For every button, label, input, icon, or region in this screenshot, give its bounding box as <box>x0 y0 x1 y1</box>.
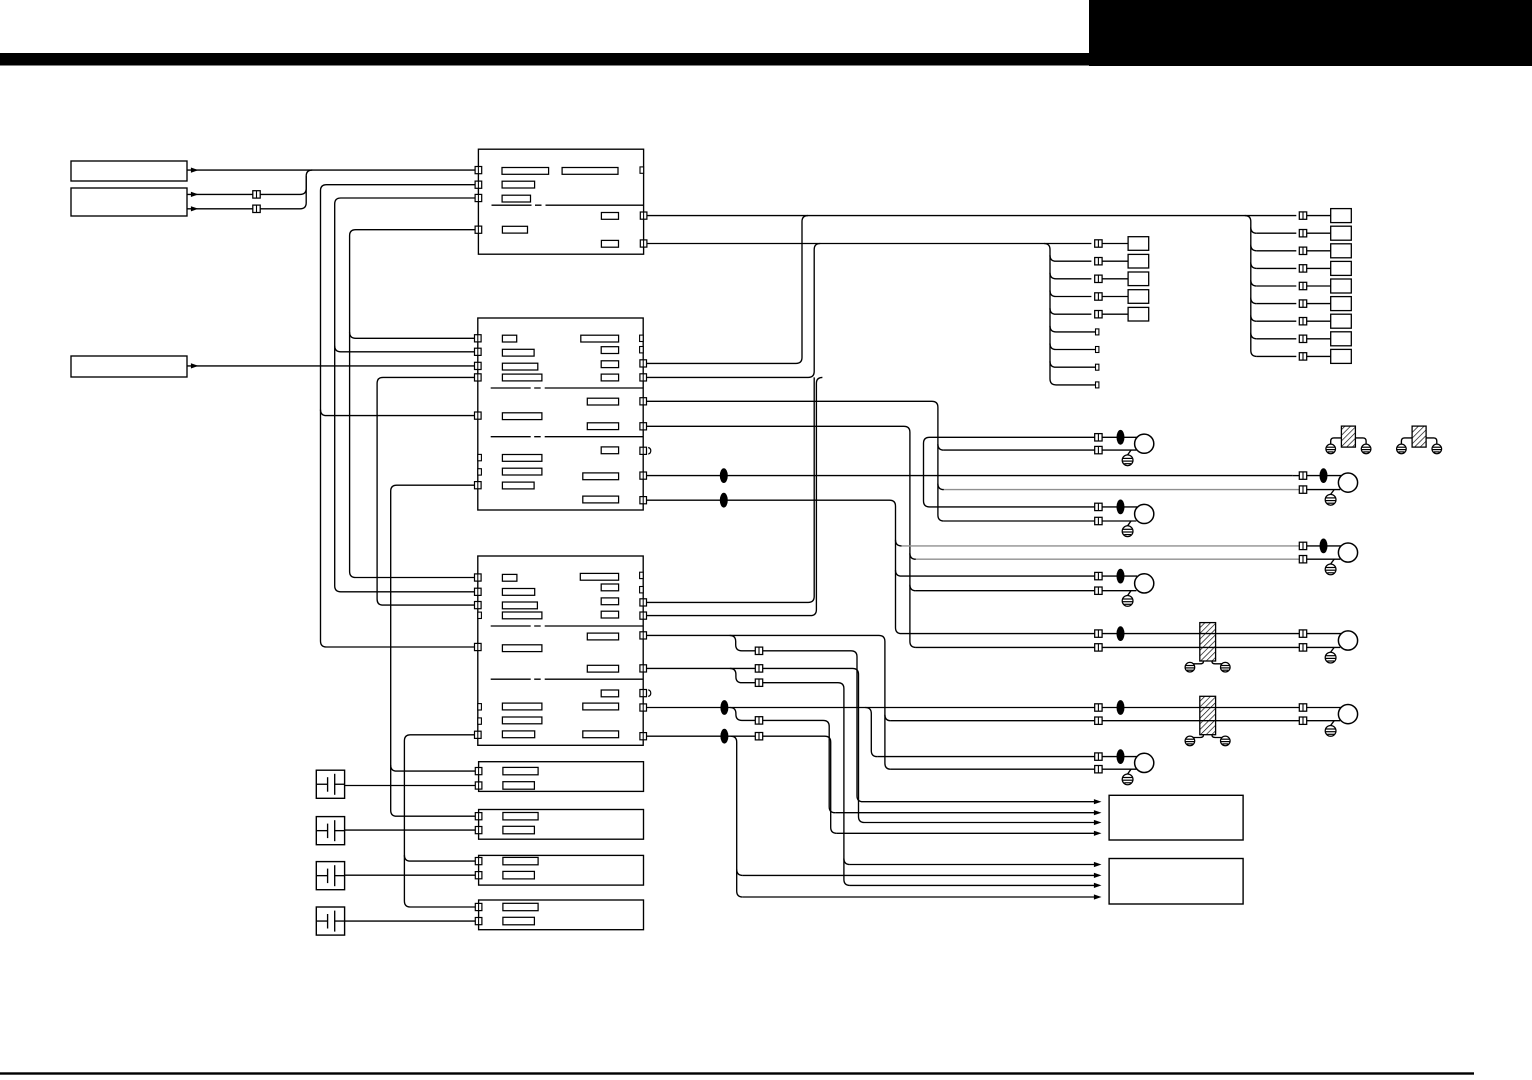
junction block C slot 13 <box>587 633 618 640</box>
spot lamp unit 2 ground left <box>1397 444 1407 454</box>
room lamp 2 low wire <box>944 520 1095 522</box>
wire left group row 3 <box>1056 278 1091 280</box>
junction block B slot 13 <box>587 398 618 405</box>
room lamp 3 low wire b <box>1102 590 1136 592</box>
VK branch to ECU box2 row 875.4 <box>737 869 743 875</box>
courtesy lamp 2 bulb <box>1338 543 1357 562</box>
unit box right group row 3 <box>1331 244 1352 258</box>
wire: block B pin R4 riser to feed row <box>647 244 821 378</box>
branch V4 to block B pin L1 <box>350 332 475 338</box>
junction block B pin L4 <box>475 374 482 381</box>
courtesy lamp 1 high connector <box>1299 472 1306 479</box>
junction block C pin R9 <box>640 733 647 740</box>
unit box left group row 1 <box>1128 237 1149 251</box>
luggage lamp high wire b <box>1102 756 1137 758</box>
tailgate lamp high wire b <box>1307 707 1341 709</box>
arrowhead on label box2 lower wire <box>191 206 199 211</box>
connector right group row 4 <box>1299 265 1306 272</box>
junction block C slot 10 <box>601 584 618 591</box>
inline connector row 650.8 <box>755 647 762 654</box>
junction block B slot 16 <box>583 473 619 480</box>
room lamp 1 ground <box>1122 455 1133 466</box>
bus branch right group row 7 <box>1251 315 1257 321</box>
switch unit box 1 outline <box>479 762 644 792</box>
courtesy lamp 3 low run <box>916 646 1095 648</box>
signal wire to control unit 2 row 4 <box>743 896 1099 898</box>
label box: interior light source 3 <box>71 356 187 377</box>
illumination resistor 2 <box>1200 696 1216 734</box>
arrowhead control unit 2 row 4 <box>1094 894 1102 899</box>
switch unit box 2 slot b <box>503 826 535 834</box>
wire right group row 2 to unit <box>1307 232 1331 234</box>
courtesy lamp 2 high connector <box>1299 542 1306 549</box>
junction block B pin L2 <box>475 348 482 355</box>
room lamp 3 ground <box>1122 596 1133 607</box>
tailgate lamp high connector <box>1299 704 1306 711</box>
room lamp 3 bulb <box>1135 574 1154 593</box>
room lamp 1 low wire b <box>1102 449 1136 451</box>
signal wire to control unit 1 row 4 <box>837 832 1099 834</box>
wire: block C pin R6 trunk <box>647 668 865 822</box>
courtesy lamp 1 low connector <box>1299 486 1306 493</box>
branch V8 to switch box 3 pin 1 <box>404 855 475 861</box>
tailgate lamp low wire b <box>1307 720 1340 722</box>
wire left group row 1 to unit <box>1102 243 1128 245</box>
wire left group row 9 <box>1056 384 1096 386</box>
VG branch to tailgate lamp low <box>885 715 891 721</box>
wire: block B pin R6 to drop VE <box>647 426 916 647</box>
illumination resistor 2 ground lead left <box>1190 735 1204 740</box>
header title block (solid) <box>1089 0 1532 66</box>
courtesy lamp 2 ground lead <box>1331 559 1335 564</box>
label box: interior light source 1 <box>71 161 187 181</box>
room lamp 3 high connector <box>1095 572 1102 579</box>
bottom rule <box>0 1072 1474 1074</box>
courtesy lamp 1 ground lead <box>1331 490 1335 495</box>
spot lamp unit 2 <box>1412 426 1426 447</box>
junction block C slot 15 <box>601 690 618 697</box>
wire: label box3 to block B pin L3 <box>187 365 475 367</box>
courtesy lamp 1 splice <box>1320 468 1328 483</box>
junction block B pin R4 <box>640 374 647 381</box>
junction block C pin R6 <box>640 665 647 672</box>
connector right group row 6 <box>1299 300 1306 307</box>
courtesy lamp 3 high connector mid <box>1095 630 1102 637</box>
junction block B pin L1 <box>475 335 482 342</box>
VE branch to room lamp 3 low <box>910 585 916 591</box>
junction block C slot 17 <box>583 731 619 738</box>
VJ branch to luggage lamp high <box>865 708 877 757</box>
switch unit box 1 pin 1 <box>475 768 482 775</box>
junction block A fuse slot 7 <box>601 240 618 247</box>
junction block B slot 15 <box>601 447 618 454</box>
tailgate lamp low wire <box>1222 720 1300 722</box>
bus branch left group row 7 <box>1050 344 1056 350</box>
wire left group row 4 to unit <box>1102 296 1128 298</box>
junction block B outline <box>478 318 643 510</box>
courtesy lamp 3 low wire b <box>1307 646 1340 648</box>
connector left group row 4 <box>1095 293 1102 300</box>
connector left group row 1 <box>1095 240 1102 247</box>
spot lamp unit 2 ground right <box>1432 444 1442 454</box>
courtesy lamp 1 bulb <box>1338 473 1357 492</box>
wire right group row 5 to unit <box>1307 285 1331 287</box>
illumination resistor 2 ground right <box>1221 736 1231 746</box>
spot lamp unit 2 ground lead left <box>1401 438 1412 444</box>
junction block C half pin L4 <box>478 612 482 618</box>
courtesy lamp 1 low wire b <box>1307 489 1340 491</box>
junction block B slot 5 <box>502 413 542 420</box>
connector left group row 5 <box>1095 311 1102 318</box>
connector right group row 8 <box>1299 335 1306 342</box>
illumination resistor 1 <box>1200 623 1216 661</box>
wire left group row 4 <box>1056 296 1091 298</box>
branch V3 to block B pin L2 <box>335 346 475 352</box>
splice on pin R9 wire <box>720 493 728 508</box>
junction block C pin L1 <box>475 574 482 581</box>
junction block C slot 3 <box>502 602 537 609</box>
junction block A pin L4 <box>475 226 482 233</box>
bus branch left group row 5 <box>1050 308 1056 314</box>
signal wire to control unit 2 row 3 <box>850 884 1099 886</box>
tailgate lamp high run b <box>1102 707 1221 709</box>
wire right group row 5 <box>1257 285 1297 287</box>
wire: label box1 to block A pin L1 <box>187 169 475 171</box>
wire right group row 8 <box>1257 338 1297 340</box>
header rule bar <box>0 53 1532 66</box>
riser: feed row to block C pin R3 <box>647 377 815 602</box>
junction block A fuse slot 4 <box>502 195 530 202</box>
courtesy lamp 1 ground <box>1325 494 1336 505</box>
luggage lamp ground <box>1122 774 1133 785</box>
wire: block A pin R2 feed to left connector bus <box>647 243 1092 245</box>
label box: interior light source 2 <box>71 188 187 216</box>
switch unit box 4 slot b <box>503 917 535 925</box>
wire: block B pin R3 riser to feed row <box>647 216 809 364</box>
junction block C outline <box>478 556 643 745</box>
wire right group row 3 to unit <box>1307 250 1331 252</box>
wire left group row 6 <box>1056 331 1096 333</box>
luggage lamp low connector <box>1095 766 1102 773</box>
wire left group row 8 <box>1056 366 1096 368</box>
door switch 3 box <box>316 862 344 890</box>
courtesy lamp 3 low run b <box>1102 646 1221 648</box>
branch jog to connector row 720.4 <box>730 708 835 813</box>
switch unit box 4 outline <box>479 900 644 930</box>
junction block C slot 2 <box>502 589 534 596</box>
junction block C pin L5 <box>475 643 482 650</box>
junction block B half pin L7 <box>478 454 482 460</box>
room lamp 2 high connector <box>1095 503 1102 510</box>
unit box right group row 1 <box>1331 209 1352 223</box>
junction block C pin R3 <box>640 599 647 606</box>
switch unit box 3 slot b <box>503 871 535 879</box>
courtesy lamp 3 ground lead <box>1331 647 1335 652</box>
switch unit box 3 outline <box>479 855 644 885</box>
junction block A half pin R0 <box>640 167 644 173</box>
switch unit box 2 pin 1 <box>475 813 482 820</box>
luggage lamp low wire <box>891 768 1095 770</box>
splice on pin R8 wire <box>720 700 728 715</box>
branch V6 to switch box 1 pin 1 <box>391 765 476 771</box>
room lamp 1 splice <box>1117 430 1125 445</box>
courtesy lamp 2 high wire <box>902 545 1300 547</box>
spot lamp unit 1 ground right <box>1361 444 1371 454</box>
wire: block B pin R8 to courtesy lamp 1 high <box>647 475 1293 477</box>
bus branch right group row 2 <box>1251 227 1257 233</box>
wire right group row 6 <box>1257 303 1297 305</box>
junction block B divider 2 <box>491 436 644 438</box>
tailgate lamp ground lead <box>1331 721 1335 726</box>
bus drop for right connector group <box>1245 216 1257 357</box>
inline connector row 668.4 <box>755 665 762 672</box>
illumination resistor 1 ground right <box>1221 662 1231 672</box>
junction block C half pin L8 <box>478 718 482 724</box>
signal wire to control unit 1 row 1 <box>863 801 1099 803</box>
tailgate lamp high connector mid <box>1095 704 1102 711</box>
wire: block A pin R1 feed to right connector bus <box>647 215 1296 217</box>
junction block C pin R5 <box>640 632 647 639</box>
signal wire to control unit 2 row 1 <box>850 864 1099 866</box>
wire right group row 8 to unit <box>1307 338 1331 340</box>
courtesy lamp 2 low connector <box>1299 556 1306 563</box>
courtesy lamp 1 high wire <box>1293 475 1299 477</box>
courtesy lamp 3 high connector <box>1299 630 1306 637</box>
junction block B pin L6 <box>475 482 482 489</box>
wire left group row 2 to unit <box>1102 260 1128 262</box>
wire: label box2 upper with jog to pin L1 run <box>187 170 312 194</box>
junction block A pin R2 <box>640 240 647 247</box>
junction block C slot 7 <box>502 717 542 724</box>
junction block B half pin R1 <box>640 335 644 341</box>
switch unit box 4 slot a <box>503 903 538 910</box>
signal wire to control unit 2 row 2 <box>743 874 1099 876</box>
luggage lamp bulb <box>1135 753 1154 772</box>
riser V8: block C pin L6 to switch boxes 3-4 <box>404 735 475 907</box>
junction block B pin R6 <box>640 423 647 430</box>
junction block B slot 9 <box>581 335 619 342</box>
VE branch to courtesy lamp 2 low <box>910 553 916 559</box>
room lamp 2 high wire b <box>1102 506 1137 508</box>
arrowhead control unit 1 row 4 <box>1094 831 1102 836</box>
junction block A fuse slot 3 <box>502 181 534 188</box>
trunk branch jog to connector row 682.7 <box>730 668 850 885</box>
courtesy lamp 2 low wire b <box>1307 558 1340 560</box>
control unit box 1 <box>1109 795 1243 840</box>
wire right group row 9 <box>1257 355 1297 357</box>
VD branch to room lamp 1 low <box>938 444 944 450</box>
bus branch right group row 8 <box>1251 333 1257 339</box>
illumination resistor 1 ground left <box>1185 662 1195 672</box>
junction block B half pin L8 <box>478 469 482 475</box>
room lamp 3 ground lead <box>1128 591 1131 596</box>
wire: label box2 lower joining riser <box>187 176 306 209</box>
junction block A fuse slot 5 <box>601 213 618 220</box>
junction block A fuse slot 1 <box>502 168 549 175</box>
luggage lamp ground lead <box>1128 769 1131 774</box>
tailgate lamp low connector <box>1299 717 1306 724</box>
junction block B stub pin R7 <box>640 447 647 454</box>
spot lamp unit 1 ground lead right <box>1355 438 1366 444</box>
wire: block B pin R9 to drop VF <box>647 500 902 633</box>
wire left group row 3 to unit <box>1102 278 1128 280</box>
arrowhead control unit 1 row 3 <box>1094 820 1102 825</box>
junction block A fuse slot 6 <box>502 226 527 233</box>
room lamp 1 low connector <box>1095 446 1102 453</box>
switch unit box 3 pin 2 <box>475 872 482 879</box>
courtesy lamp 1 low wire <box>944 489 1299 491</box>
riser VC room lamp feeds <box>924 437 930 507</box>
arrowhead on label box3 wire <box>191 363 199 368</box>
junction block B slot 3 <box>502 363 537 370</box>
wire: block C pin R9 trunk <box>647 736 837 833</box>
connector right group row 3 <box>1299 247 1306 254</box>
door switch 1 contact <box>316 783 327 785</box>
room lamp 1 high wire <box>930 436 1095 438</box>
wire right group row 7 to unit <box>1307 320 1331 322</box>
unit box right group row 8 <box>1331 332 1352 346</box>
junction block C slot 1 <box>502 574 517 581</box>
wire right group row 3 <box>1257 250 1297 252</box>
junction block B slot 12 <box>601 374 618 381</box>
courtesy lamp 2 splice <box>1320 539 1328 554</box>
wire left group row 5 to unit <box>1102 313 1128 315</box>
junction block A divider <box>492 204 644 206</box>
junction block B slot 14 <box>587 423 618 430</box>
connector left group row 2 <box>1095 258 1102 265</box>
junction block C half pin R2 <box>640 587 644 593</box>
junction block B slot 1 <box>502 335 516 342</box>
connector right group row 7 <box>1299 318 1306 325</box>
junction block C slot 9 <box>580 573 618 580</box>
luggage lamp high wire <box>877 756 1094 758</box>
unit box left group row 3 <box>1128 272 1149 286</box>
switch unit box 2 slot a <box>503 813 538 820</box>
tailgate lamp low run b <box>1102 720 1221 722</box>
arrowhead control unit 1 row 1 <box>1094 799 1102 804</box>
junction block C slot 6 <box>502 703 542 710</box>
riser V6: block B pin L6 to switch boxes 1-2 <box>391 485 476 816</box>
tailgate lamp high wire <box>1222 707 1300 709</box>
junction block C pin R4 <box>640 612 647 619</box>
connector right group row 2 <box>1299 230 1306 237</box>
connector right group row 1 <box>1299 212 1306 219</box>
junction block A pin L2 <box>475 181 482 188</box>
junction block A pin L1 <box>475 167 482 174</box>
unit box left group row 2 <box>1128 254 1149 268</box>
illumination resistor 1 ground lead right <box>1212 661 1225 666</box>
wire left group row 5 <box>1056 313 1091 315</box>
junction block B pin L5 <box>475 412 482 419</box>
illumination resistor 2 ground lead right <box>1212 735 1225 740</box>
courtesy lamp 3 ground <box>1325 652 1336 663</box>
junction block A outline <box>478 149 643 254</box>
room lamp 3 low connector <box>1095 587 1102 594</box>
room lamp 2 low connector <box>1095 517 1102 524</box>
switch unit box 4 pin 1 <box>475 903 482 910</box>
unit box right group row 2 <box>1331 226 1352 240</box>
illumination resistor 2 ground left <box>1185 736 1195 746</box>
junction block C stub pin R7 <box>640 690 647 697</box>
inline connector row 682.7 <box>755 679 762 686</box>
room lamp 3 high wire <box>902 575 1095 577</box>
arrowhead control unit 1 row 2 <box>1094 810 1102 815</box>
door switch 2 contact <box>316 830 327 832</box>
junction block C slot 5 <box>502 645 542 652</box>
riser V2: block A pin L2 to block B pin L5 and block C pin L5 <box>321 185 476 647</box>
bus branch right group row 3 <box>1251 245 1257 251</box>
connector right group row 9 <box>1299 353 1306 360</box>
switch unit box 2 pin 2 <box>475 827 482 834</box>
door switch 2 box <box>316 817 344 845</box>
courtesy lamp 3 high run <box>902 633 1095 635</box>
junction block B pin L3 <box>475 362 482 369</box>
spot lamp unit 1 ground lead left <box>1331 438 1342 444</box>
junction block B pin R8 <box>640 472 647 479</box>
inline connector row 736.2 <box>755 733 762 740</box>
courtesy lamp 3 high wire b <box>1307 633 1341 635</box>
wire right group row 2 <box>1257 232 1297 234</box>
junction block C pin L2 <box>475 588 482 595</box>
door switch 1 box <box>316 770 344 798</box>
wire left group row 7 <box>1056 349 1096 351</box>
room lamp 2 bulb <box>1135 504 1154 523</box>
splice on pin R8 wire <box>720 468 728 483</box>
junction block B divider 1 <box>491 387 644 389</box>
junction block C slot 16 <box>583 703 619 710</box>
junction block A fuse slot 2 <box>562 168 618 175</box>
spot lamp unit 2 ground lead right <box>1426 438 1437 444</box>
bus drop for left connector group <box>1044 244 1056 385</box>
arrowhead control unit 2 row 1 <box>1094 862 1102 867</box>
junction block B slot 11 <box>601 361 618 368</box>
wire: block C pin R5 trunk <box>647 635 891 769</box>
luggage lamp low wire b <box>1102 768 1136 770</box>
junction block B slot 17 <box>583 496 619 503</box>
courtesy lamp 3 bulb <box>1338 631 1357 650</box>
signal wire to control unit 1 row 2 <box>835 812 1098 814</box>
switch unit box 3 slot a <box>503 857 538 864</box>
wire: block B pin R5 to drop VD <box>647 401 944 521</box>
junction block B pin R9 <box>640 497 647 504</box>
wire: door switch 1 to switch box 1 pin 2 <box>345 785 476 787</box>
bus branch left group row 4 <box>1050 291 1056 297</box>
signal wire to control unit 1 row 3 <box>865 822 1099 824</box>
wire: block C pin R8 to tailgate lamp high <box>647 707 1095 709</box>
stub pin left group row 6 <box>1096 329 1099 335</box>
room lamp 3 splice <box>1117 569 1125 584</box>
courtesy lamp 3 high wire <box>1222 633 1300 635</box>
VI branch to ECU box2 row 864.5 <box>844 859 850 865</box>
junction block C pin L3 <box>475 602 482 609</box>
wire: door switch 4 to switch box 4 pin 2 <box>345 920 476 922</box>
room lamp 2 splice <box>1117 500 1125 515</box>
arrowhead control unit 2 row 2 <box>1094 873 1102 878</box>
riser: block B pin R4 to block C pin R4 <box>647 377 823 615</box>
switch unit box 1 pin 2 <box>475 782 482 789</box>
inline connector on label box2 upper wire <box>253 191 260 198</box>
spot lamp unit 1 ground left <box>1326 444 1336 454</box>
unit box right group row 5 <box>1331 279 1352 293</box>
room lamp 2 low wire b <box>1102 520 1136 522</box>
wire right group row 6 to unit <box>1307 303 1331 305</box>
junction block C divider 2 <box>491 678 644 680</box>
junction block B slot 8 <box>502 482 534 489</box>
courtesy lamp 3 high run b <box>1102 633 1221 635</box>
connector right group row 5 <box>1299 282 1306 289</box>
tailgate lamp high splice <box>1117 700 1125 715</box>
unit box right group row 6 <box>1331 297 1352 311</box>
